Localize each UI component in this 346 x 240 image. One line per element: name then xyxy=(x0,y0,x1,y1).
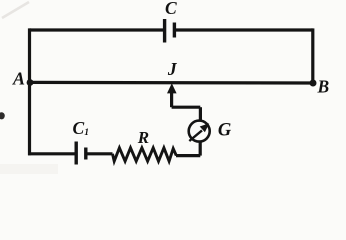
wire bottom segment 2 xyxy=(86,152,113,155)
wire jog to J xyxy=(172,106,201,109)
node A xyxy=(27,79,34,86)
wire left vertical xyxy=(28,28,31,155)
wire right vertical (top loop to B) xyxy=(311,28,314,83)
wire galvanometer top riser xyxy=(199,107,202,120)
resistor R xyxy=(113,148,177,161)
capacitor C xyxy=(165,19,175,43)
node B xyxy=(310,80,317,87)
wire bottom segment 3 (resistor to galvanometer) xyxy=(176,154,200,157)
wire bottom segment 1 xyxy=(28,152,76,155)
stray ink blob xyxy=(0,112,5,119)
svg-text:A: A xyxy=(12,69,25,89)
jockey arrowhead at J xyxy=(167,83,177,93)
svg-text:R: R xyxy=(137,128,149,147)
capacitor C1 xyxy=(76,142,86,165)
wire middle A to B xyxy=(30,81,313,85)
faint smudge bottom-left xyxy=(0,164,58,174)
wire top-left segment xyxy=(30,28,165,31)
svg-text:B: B xyxy=(316,77,329,97)
wire jockey shaft xyxy=(170,91,173,107)
wire top-right segment xyxy=(174,28,312,31)
svg-text:J: J xyxy=(167,59,178,79)
wire galvanometer bottom riser xyxy=(199,142,202,156)
svg-text:C: C xyxy=(165,0,177,18)
galvanometer G xyxy=(189,121,210,142)
svg-text:G: G xyxy=(218,121,232,141)
faint scan streak top-left xyxy=(2,2,29,18)
svg-text:C1: C1 xyxy=(73,118,89,138)
